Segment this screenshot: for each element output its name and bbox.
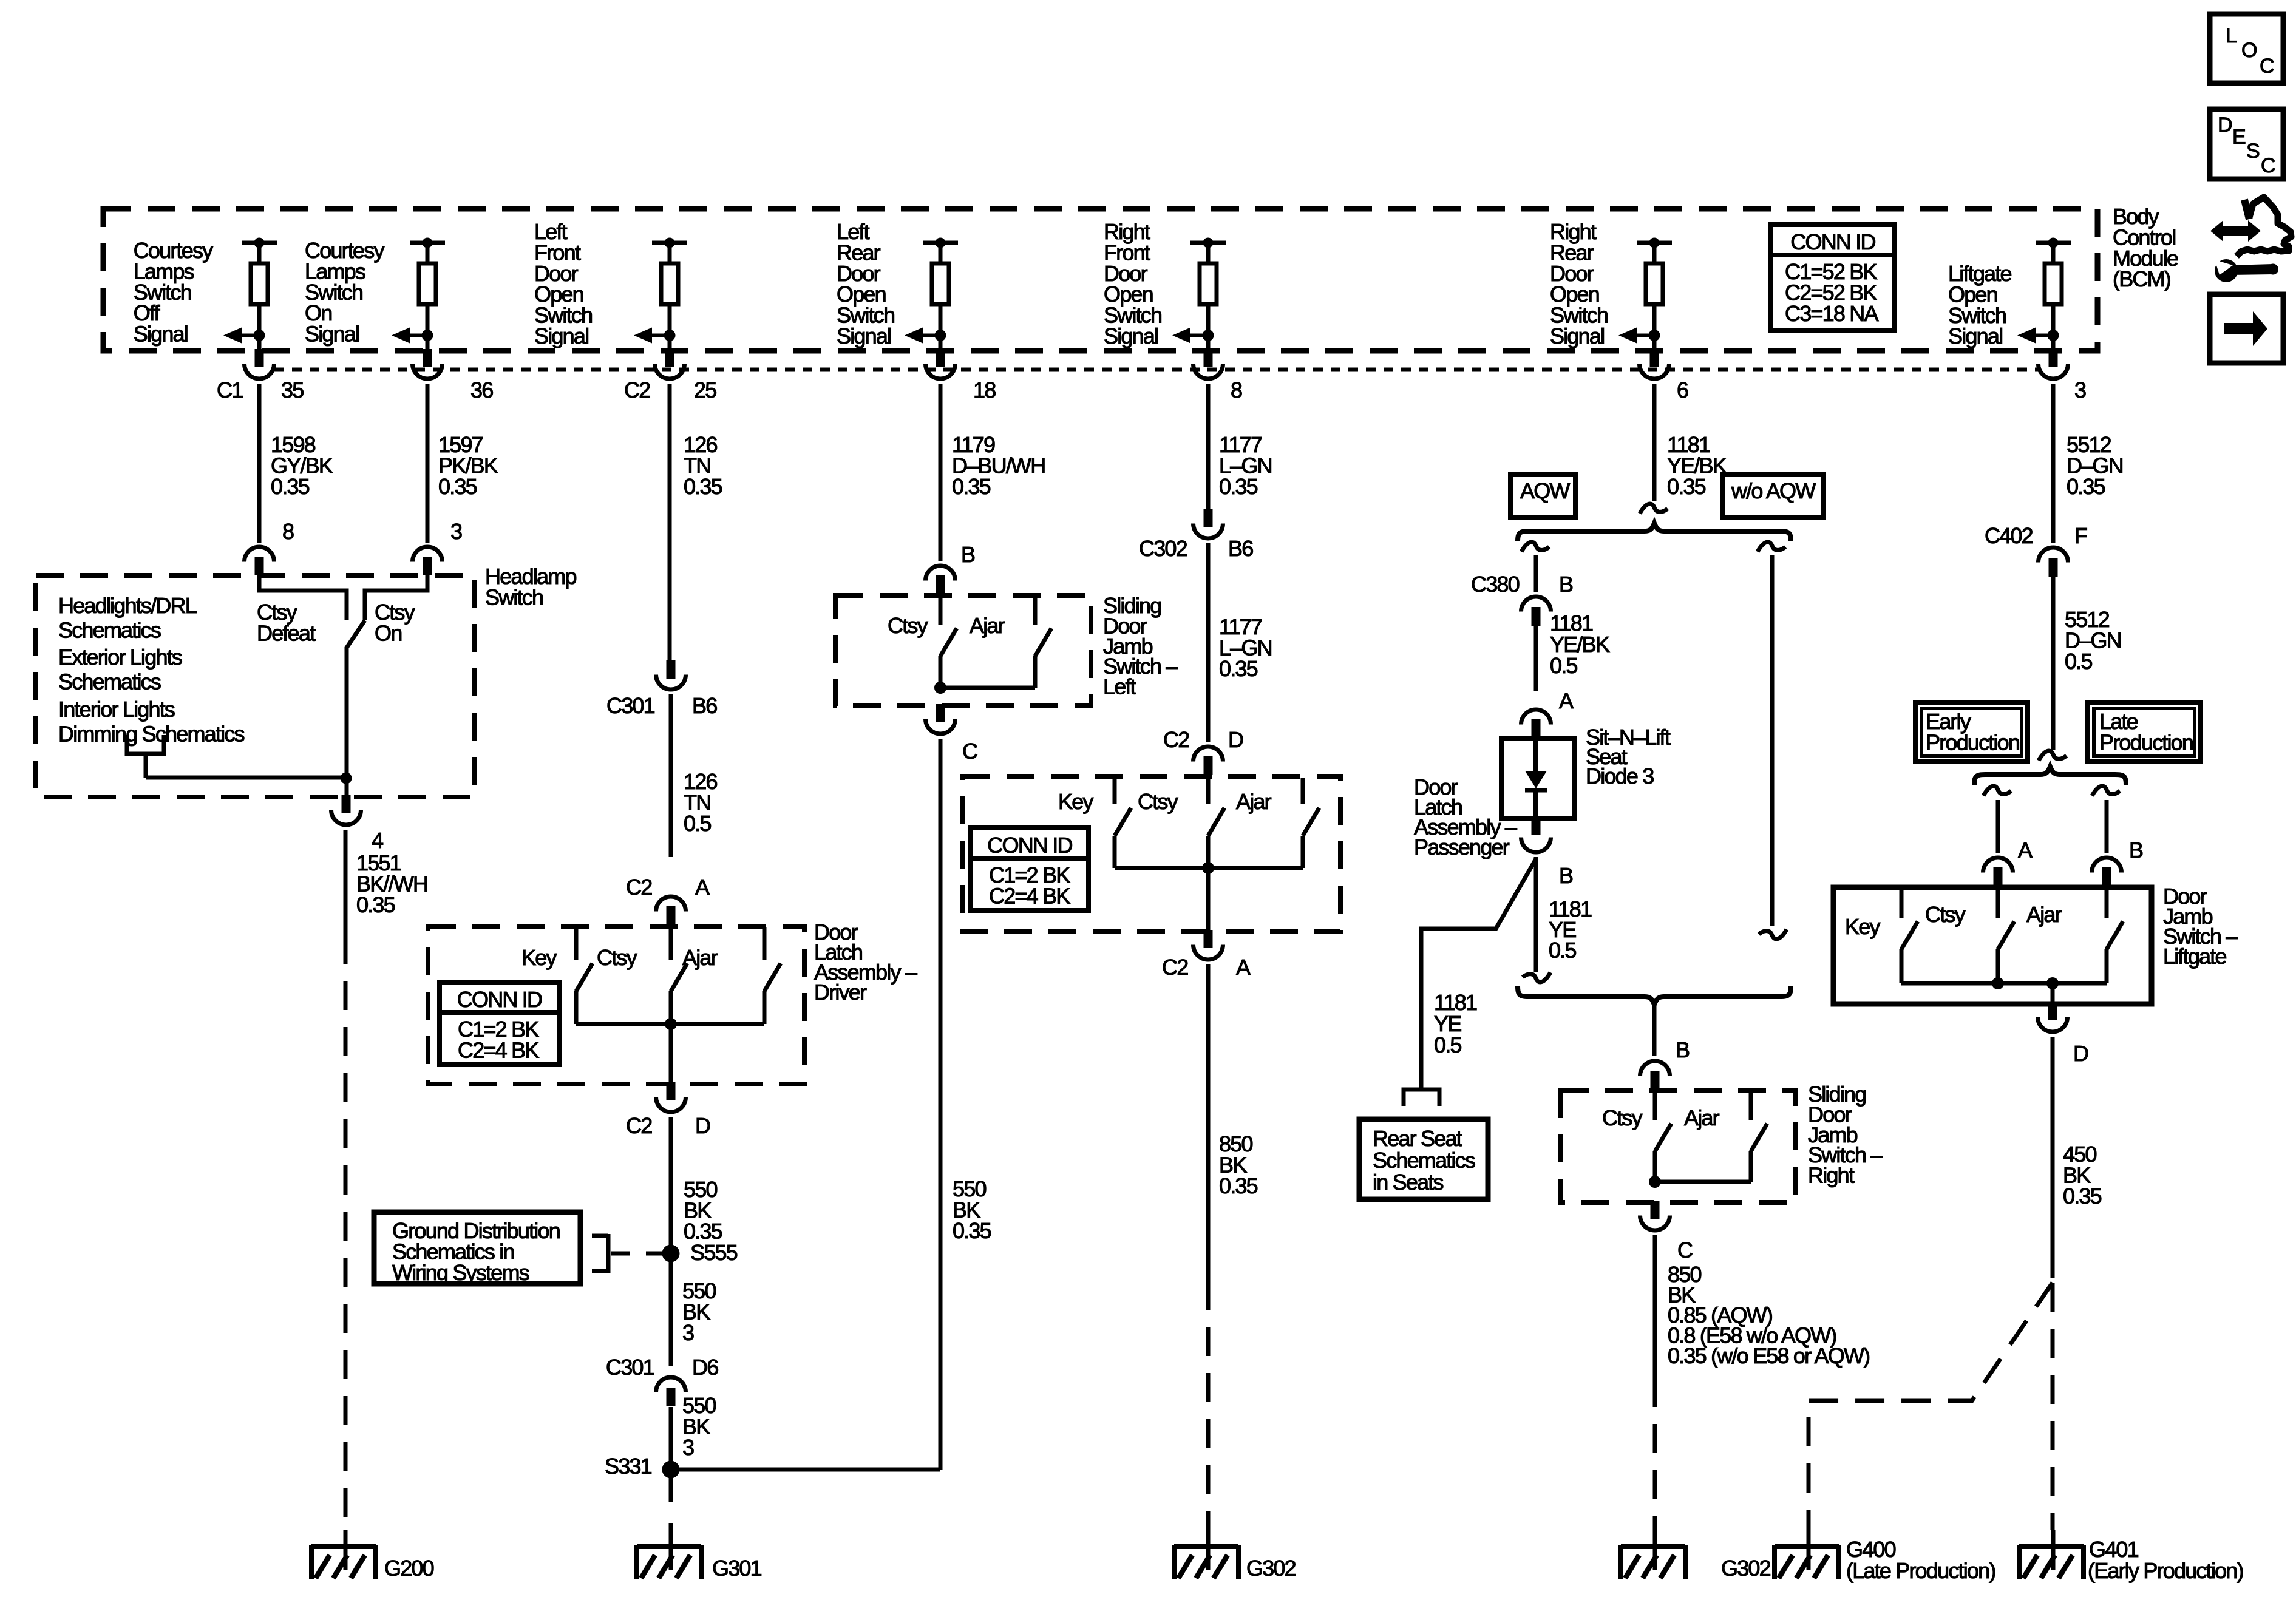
svg-text:0.5: 0.5: [1434, 1032, 1461, 1057]
svg-text:Signal: Signal: [1948, 324, 2002, 348]
svg-text:6: 6: [1677, 378, 1688, 402]
CONN ID table driver latch: [440, 982, 559, 1065]
AQW option box: [1510, 475, 1575, 517]
svg-text:C3=18 NA: C3=18 NA: [1785, 301, 1878, 326]
svg-text:G200: G200: [384, 1556, 434, 1581]
ground G302 (second): [1653, 1530, 1657, 1570]
Ground Distribution Schematics reference box: [374, 1212, 580, 1284]
svg-text:Signal: Signal: [1104, 324, 1158, 348]
connector B below diode: [1532, 817, 1541, 835]
switch Ajar, sliding left: [1033, 597, 1038, 625]
wire pin3 to Ctsy On contact: [365, 575, 427, 620]
dashed wire to G401: [2051, 1283, 2055, 1530]
svg-text:Headlights/DRL: Headlights/DRL: [58, 593, 197, 618]
svg-text:0.35: 0.35: [356, 892, 395, 917]
svg-text:C1: C1: [217, 378, 243, 402]
svg-text:0.5: 0.5: [684, 811, 711, 836]
svg-text:Rear Seat: Rear Seat: [1373, 1126, 1462, 1151]
wire pin8 to Ctsy Defeat contact: [259, 575, 347, 620]
svg-text:F: F: [2074, 523, 2087, 548]
junction sliding right output: [1649, 1176, 1661, 1188]
wire 1597 from BCM 36 to headlamp switch: [426, 384, 430, 543]
svg-text:CONN ID: CONN ID: [987, 833, 1072, 858]
svg-text:Ajar: Ajar: [970, 613, 1005, 638]
svg-text:4: 4: [372, 828, 383, 853]
wire 1598 from BCM 35 to headlamp switch: [257, 384, 262, 543]
break late branch: [2092, 786, 2120, 796]
connector C sliding door jamb left: [936, 704, 945, 722]
switch Ctsy, sliding left: [939, 597, 943, 625]
svg-text:CONN ID: CONN ID: [457, 987, 542, 1012]
dashed wire to G302 right: [1653, 1378, 1657, 1530]
wire 550 BK 0.35: [669, 1117, 673, 1244]
passenger latch bus: [1115, 866, 1303, 870]
ground G302 (first): [1206, 1530, 1211, 1570]
svg-text:0.35: 0.35: [684, 474, 722, 499]
svg-text:Liftgate: Liftgate: [2163, 944, 2226, 969]
svg-text:C: C: [962, 739, 977, 764]
svg-text:0.35: 0.35: [952, 474, 991, 499]
BCM connector pin, Liftgate Open Switch Signal: [2049, 349, 2058, 367]
DESC icon box: [2210, 109, 2283, 179]
svg-text:0.35: 0.35: [1219, 1173, 1258, 1198]
wire 1551 dashed to G200: [344, 935, 348, 1530]
connector C2 D passenger latch: [1194, 747, 1223, 762]
BCM connector pin, Right Front Door Open Switch Signal: [1204, 349, 1213, 367]
svg-text:L: L: [2226, 24, 2237, 47]
Rear Seat Schematics in Seats box: [1359, 1119, 1488, 1199]
LOC icon box: [2210, 14, 2283, 83]
junction liftgate output: [2046, 977, 2059, 989]
svg-text:0.35: 0.35: [1667, 474, 1706, 499]
svg-text:C301: C301: [606, 693, 655, 718]
svg-text:Passenger: Passenger: [1414, 835, 1510, 859]
wrench: [2215, 259, 2238, 282]
connector C302 B6: [1204, 509, 1213, 527]
svg-text:O: O: [2241, 39, 2257, 62]
hand with double arrow and wrench icon: [2244, 200, 2249, 219]
switch Key, liftgate jamb: [1900, 889, 1904, 918]
driver latch common bus: [576, 1022, 764, 1026]
svg-text:Ctsy: Ctsy: [1925, 902, 1966, 927]
svg-text:Production: Production: [1926, 730, 2019, 754]
svg-text:Driver: Driver: [814, 980, 867, 1005]
svg-text:G302: G302: [1246, 1556, 1296, 1581]
junction passenger latch output: [1202, 862, 1214, 874]
Body Control Module (BCM) dashed box: [103, 209, 2097, 351]
break w/o AQW branch bottom: [1759, 929, 1787, 939]
wire 850 BK: [1653, 1235, 1657, 1378]
svg-text:A: A: [2018, 838, 2033, 863]
connector B liftgate jamb: [2092, 858, 2122, 873]
svg-text:0.35: 0.35: [953, 1218, 991, 1243]
wire 550 BK 3 lower: [669, 1407, 673, 1461]
svg-text:Key: Key: [1845, 914, 1880, 939]
w/o AQW option box: [1723, 475, 1823, 517]
connector pin 3, headlamp switch: [413, 547, 443, 562]
svg-text:CONN ID: CONN ID: [1790, 229, 1875, 254]
svg-text:0.35: 0.35: [1219, 656, 1258, 681]
svg-text:C302: C302: [1139, 536, 1187, 561]
Door Jamb Switch - Liftgate solid box: [1833, 887, 2152, 1004]
dashed wire to G400: [1809, 1283, 2053, 1530]
svg-text:D: D: [1228, 727, 1243, 752]
svg-text:C: C: [1677, 1238, 1693, 1263]
svg-text:S: S: [2246, 140, 2260, 163]
BCM connector pin, Right Rear Door Open Switch Signal: [1650, 349, 1659, 367]
svg-text:Schematics: Schematics: [58, 670, 161, 694]
switch Ajar, sliding right: [1749, 1092, 1753, 1120]
svg-text:in Seats: in Seats: [1373, 1170, 1443, 1195]
wire 5512 D-GN 0.5: [2051, 577, 2056, 750]
switch Ctsy, liftgate jamb: [1996, 889, 2000, 918]
break w/o AQW branch top: [1758, 542, 1785, 552]
svg-text:0.35: 0.35: [2063, 1184, 2102, 1209]
wire 126 TN from BCM 25: [668, 384, 672, 661]
svg-text:35: 35: [281, 378, 304, 402]
connector B sliding door jamb left: [926, 566, 956, 581]
svg-text:On: On: [375, 620, 401, 645]
svg-text:Wiring Systems: Wiring Systems: [392, 1260, 529, 1285]
svg-text:C301: C301: [606, 1355, 654, 1380]
svg-text:8: 8: [282, 519, 294, 544]
svg-text:C2: C2: [626, 1113, 652, 1138]
BCM pull-up resistor + arrow, Courtesy Lamps Switch Off Signal: [242, 241, 277, 245]
BCM connector pin, Left Rear Door Open Switch Signal: [936, 349, 945, 367]
connector C301 D6: [656, 1377, 686, 1392]
BCM connector pin, Courtesy Lamps Switch Off Signal: [255, 349, 264, 367]
svg-text:B6: B6: [692, 693, 717, 718]
ground G301: [669, 1530, 673, 1570]
headlamp switch blade (Ctsy On closed) + common wire: [347, 620, 365, 795]
svg-text:D6: D6: [692, 1355, 718, 1380]
switch Ctsy, passenger latch: [1206, 778, 1211, 804]
wire B branch: [2105, 800, 2109, 853]
diode symbol: [1525, 771, 1547, 788]
Early Production box: [1915, 702, 2028, 762]
connector pin 8, headlamp switch: [245, 547, 274, 562]
svg-text:G301: G301: [712, 1556, 762, 1581]
wire 1181 YE/BK from BCM 6: [1652, 384, 1657, 501]
wire to C2 D: [669, 1024, 673, 1082]
switch Ctsy, driver latch: [669, 927, 673, 960]
connector C301 B6: [667, 660, 676, 679]
svg-text:Ctsy: Ctsy: [1602, 1105, 1643, 1130]
svg-text:B6: B6: [1228, 536, 1253, 561]
wire 1181 YE 0.5 down: [1534, 857, 1538, 972]
svg-text:C2=4 BK: C2=4 BK: [989, 884, 1070, 909]
svg-text:36: 36: [470, 378, 493, 402]
svg-text:Ajar: Ajar: [1236, 789, 1272, 814]
svg-text:C2: C2: [626, 875, 652, 900]
svg-text:E: E: [2232, 126, 2246, 149]
svg-text:3: 3: [450, 519, 462, 544]
svg-text:0.35: 0.35: [438, 474, 477, 499]
Sliding Door Jamb Switch - Right dashed box: [1561, 1091, 1795, 1202]
bracket into rear seat schematics: [1404, 1090, 1439, 1106]
wire S331 to G301: [669, 1478, 673, 1502]
svg-text:Schematics: Schematics: [1373, 1148, 1475, 1173]
svg-text:B: B: [961, 542, 975, 567]
svg-text:3: 3: [682, 1435, 694, 1460]
svg-text:D: D: [2073, 1041, 2088, 1066]
connector C sliding door jamb right: [1651, 1201, 1660, 1219]
switch Key, driver latch: [574, 927, 579, 960]
break at production split: [2039, 751, 2067, 761]
connector C2 D driver latch: [667, 1082, 676, 1100]
switch Ctsy, sliding right: [1653, 1092, 1657, 1120]
schematics reference bracket: [127, 735, 164, 754]
svg-text:Signal: Signal: [134, 322, 188, 347]
switch Ajar, passenger latch: [1301, 778, 1305, 804]
BCM pull-up resistor + arrow, Left Front Door Open Switch Signal: [652, 241, 687, 245]
connector C2 A passenger latch: [1204, 930, 1213, 948]
svg-text:B: B: [1559, 572, 1573, 597]
junction liftgate bus: [1992, 977, 2004, 989]
svg-text:S555: S555: [690, 1240, 738, 1265]
ground G401: [2051, 1530, 2056, 1570]
svg-text:w/o AQW: w/o AQW: [1731, 478, 1816, 503]
svg-text:D: D: [695, 1113, 710, 1138]
wire 126 TN 0.5: [669, 694, 673, 857]
ground G400: [1807, 1530, 1811, 1570]
sliding left bus: [940, 686, 1035, 690]
svg-text:Ajar: Ajar: [2026, 902, 2062, 927]
wire 850 BK 0.35: [1206, 964, 1211, 1281]
connector C380 B: [1521, 597, 1551, 612]
liftgate jamb bus: [1901, 981, 2107, 986]
svg-text:C2: C2: [1162, 955, 1188, 980]
break early branch: [1983, 786, 2011, 796]
Sliding Door Jamb Switch - Left dashed box: [835, 595, 1091, 706]
svg-text:C2: C2: [1163, 727, 1189, 752]
svg-text:0.35: 0.35: [271, 474, 310, 499]
wire 1551 solid: [344, 830, 348, 935]
svg-text:Production: Production: [2099, 730, 2193, 754]
svg-text:Signal: Signal: [1550, 324, 1604, 348]
svg-text:Signal: Signal: [534, 324, 588, 348]
svg-text:Signal: Signal: [305, 322, 359, 347]
wire AQW branch: [1534, 555, 1538, 592]
brace AQW merge: [1518, 986, 1791, 1005]
splice S555: [662, 1245, 680, 1263]
svg-text:Right: Right: [1808, 1163, 1855, 1188]
Door Latch Assembly - Driver dashed box: [428, 926, 804, 1084]
svg-text:A: A: [1559, 688, 1574, 713]
ground G200: [344, 1530, 348, 1570]
svg-text:3: 3: [682, 1320, 694, 1345]
svg-text:Ajar: Ajar: [1684, 1105, 1720, 1130]
junction at headlamp common: [341, 773, 352, 784]
svg-text:Schematics: Schematics: [58, 618, 161, 643]
svg-text:0.5: 0.5: [1549, 938, 1576, 963]
connector B sliding door jamb right: [1640, 1061, 1670, 1076]
wire to sliding door jamb right: [1652, 1005, 1657, 1056]
Late Production box: [2088, 702, 2201, 762]
splice S331: [662, 1461, 680, 1479]
svg-text:3: 3: [2074, 378, 2086, 402]
wire S331 to left sliding door jamb switch: [679, 1468, 940, 1472]
CONN ID table passenger latch: [971, 828, 1089, 910]
svg-text:B: B: [2129, 838, 2143, 863]
break AQW branch bottom: [1523, 972, 1550, 982]
svg-text:0.35: 0.35: [1219, 474, 1258, 499]
switch Key, passenger latch: [1113, 778, 1117, 804]
BCM pull-up resistor + arrow, Right Front Door Open Switch Signal: [1190, 241, 1226, 245]
BCM connector face dotted line C1/C2: [274, 368, 2039, 372]
svg-text:C: C: [2260, 55, 2274, 78]
svg-text:Key: Key: [1058, 789, 1093, 814]
connector C402 F: [2039, 547, 2068, 563]
svg-text:Signal: Signal: [837, 324, 891, 348]
svg-text:Ctsy: Ctsy: [1138, 789, 1178, 814]
svg-text:A: A: [1236, 955, 1251, 980]
wire 550 BK 0.35 to S331: [939, 739, 943, 1470]
wire w/o AQW branch: [1770, 555, 1775, 926]
wire 1177 L-GN 0.35: [1206, 543, 1211, 742]
switch Ajar, driver latch: [763, 927, 767, 960]
BCM pull-up resistor + arrow, Liftgate Open Switch Signal: [2036, 241, 2071, 245]
svg-text:C2=4 BK: C2=4 BK: [458, 1038, 539, 1063]
wire A branch: [1996, 800, 2000, 853]
wire 450 BK 0.35: [2051, 1037, 2055, 1278]
wire 1181 YE to rear seat schematics: [1421, 859, 1536, 1088]
BCM pull-up resistor + arrow, Left Rear Door Open Switch Signal: [923, 241, 958, 245]
svg-text:Left: Left: [1103, 674, 1136, 699]
connector A liftgate jamb: [1983, 858, 2013, 873]
svg-text:(Early Production): (Early Production): [2088, 1558, 2243, 1583]
connector A sit-n-lift diode: [1521, 710, 1551, 725]
BCM pull-up resistor + arrow, Right Rear Door Open Switch Signal: [1637, 241, 1672, 245]
svg-text:Diode 3: Diode 3: [1586, 764, 1654, 788]
svg-text:B: B: [1559, 863, 1573, 888]
wire 5512 from BCM 3: [2051, 384, 2056, 543]
svg-text:Exterior Lights: Exterior Lights: [58, 645, 182, 670]
svg-text:G302: G302: [1721, 1556, 1771, 1581]
svg-text:25: 25: [694, 378, 716, 402]
Sit-N-Lift Seat Diode 3 box: [1501, 738, 1575, 818]
svg-text:AQW: AQW: [1520, 478, 1570, 503]
brace production split: [1974, 767, 2126, 785]
Headlamp Switch dashed box: [36, 575, 475, 797]
arrow icon box: [2210, 294, 2283, 363]
BCM pull-up resistor + arrow, Courtesy Lamps Switch On Signal: [410, 241, 445, 245]
connector D liftgate jamb: [2048, 1002, 2057, 1020]
svg-text:0.5: 0.5: [1550, 653, 1577, 678]
svg-text:C380: C380: [1471, 572, 1520, 597]
connector pin 4, headlamp switch: [342, 795, 351, 813]
svg-text:S331: S331: [605, 1454, 652, 1479]
wire 550 BK 3: [669, 1244, 673, 1366]
svg-text:0.35: 0.35: [2067, 474, 2105, 499]
svg-text:Dimming Schematics: Dimming Schematics: [58, 722, 244, 747]
svg-text:Defeat: Defeat: [257, 620, 316, 645]
svg-text:Key: Key: [521, 945, 557, 970]
svg-text:C2: C2: [624, 378, 650, 402]
svg-text:8: 8: [1231, 378, 1242, 402]
svg-text:B: B: [1676, 1037, 1690, 1062]
svg-text:Ctsy: Ctsy: [597, 945, 637, 970]
sliding right bus: [1655, 1180, 1751, 1184]
wire 1179 from BCM 18: [939, 384, 943, 561]
svg-text:C: C: [2261, 154, 2275, 177]
svg-text:0.5: 0.5: [2065, 649, 2092, 674]
connector C2 A driver latch: [656, 897, 686, 912]
bracket from ground distribution box to S555: [592, 1234, 608, 1238]
svg-text:(Late Production): (Late Production): [1846, 1558, 1995, 1583]
BCM connector pin, Courtesy Lamps Switch On Signal: [423, 349, 432, 367]
wire 1177 from BCM 8: [1206, 384, 1211, 510]
break AQW branch: [1521, 542, 1549, 552]
junction sliding left output: [934, 682, 946, 694]
BCM connector pin, Left Front Door Open Switch Signal: [665, 349, 674, 367]
CONN ID table BCM: [1771, 225, 1895, 331]
svg-text:D: D: [2218, 114, 2232, 137]
svg-text:C402: C402: [1985, 523, 2033, 548]
svg-text:0.35 (w/o E58 or AQW): 0.35 (w/o E58 or AQW): [1668, 1343, 1869, 1368]
Door Latch Assembly - Passenger dashed box: [962, 776, 1340, 932]
wire break at AQW split: [1640, 504, 1668, 514]
junction driver latch output: [665, 1018, 677, 1030]
brace AQW split: [1518, 523, 1791, 541]
wire 1181 YE/BK 0.5: [1534, 626, 1538, 691]
switch Ajar, liftgate jamb: [2105, 889, 2109, 918]
svg-text:(BCM): (BCM): [2113, 266, 2170, 291]
svg-text:A: A: [695, 875, 710, 900]
svg-text:Ctsy: Ctsy: [888, 613, 928, 638]
svg-text:Interior Lights: Interior Lights: [58, 697, 175, 722]
dashed wire to G302: [1206, 1281, 1211, 1530]
svg-text:Switch: Switch: [485, 585, 543, 609]
svg-text:18: 18: [973, 378, 996, 402]
